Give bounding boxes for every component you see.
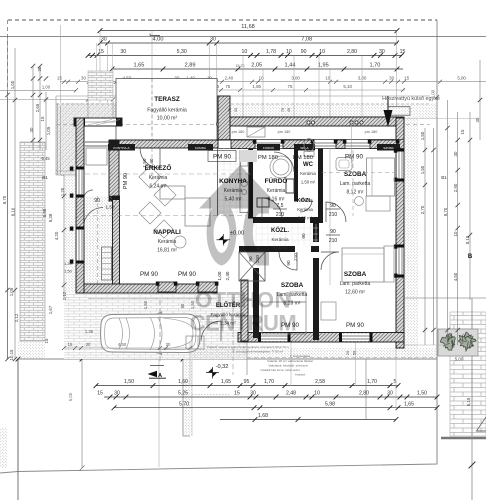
interior wall kozl/szoba right bbox=[313, 222, 319, 242]
svg-text:1,50: 1,50 bbox=[420, 165, 425, 174]
svg-text:1,50 m²: 1,50 m² bbox=[301, 180, 316, 185]
watermark roof bbox=[199, 165, 281, 209]
trees in planter right bbox=[438, 329, 478, 356]
svg-text:1,95: 1,95 bbox=[318, 63, 329, 69]
dim line 1,65 2,89 row bbox=[112, 68, 403, 70]
interior extension lines bbox=[329, 149, 331, 286]
door arc szoba top-right bbox=[326, 202, 346, 222]
svg-text:90: 90 bbox=[330, 229, 336, 235]
svg-text:75: 75 bbox=[228, 108, 232, 112]
svg-text:1,40: 1,40 bbox=[149, 158, 154, 167]
svg-text:10,00 m²: 10,00 m² bbox=[157, 116, 178, 122]
plot left edge extended bbox=[17, 359, 19, 500]
dim row 1,50 1,60 ... bbox=[96, 385, 398, 387]
svg-text:2,70: 2,70 bbox=[420, 205, 425, 214]
svg-text:10: 10 bbox=[259, 75, 264, 80]
svg-text:7,08: 7,08 bbox=[301, 37, 312, 43]
dim line 4,00 / 7,08 bbox=[100, 42, 398, 44]
svg-text:OTTHON: OTTHON bbox=[195, 288, 291, 313]
svg-text:1,68: 1,68 bbox=[258, 413, 268, 419]
svg-text:90: 90 bbox=[330, 203, 336, 209]
svg-text:4,00: 4,00 bbox=[153, 37, 164, 43]
faint vertical x159 bbox=[158, 359, 160, 467]
svg-text:PM 90: PM 90 bbox=[346, 322, 364, 329]
svg-text:1,00: 1,00 bbox=[10, 80, 15, 89]
terrace slab bbox=[116, 79, 217, 141]
svg-text:T. a módosított helyiséglista:: T. a módosított helyiséglista: 77,65 m² bbox=[233, 350, 283, 354]
svg-text:4,50: 4,50 bbox=[453, 272, 458, 281]
svg-text:4,50: 4,50 bbox=[118, 342, 127, 347]
svg-text:Családi ház terve: utcai nézet: Családi ház terve: utcai nézet bbox=[260, 368, 300, 372]
watermark letter C bbox=[243, 200, 269, 266]
svg-text:5,10: 5,10 bbox=[343, 84, 352, 89]
svg-text:90: 90 bbox=[301, 49, 307, 55]
plot bottom slanted boundary bbox=[0, 472, 18, 474]
dim line 4,50 row light bbox=[60, 81, 486, 83]
svg-text:10: 10 bbox=[242, 49, 248, 55]
svg-text:1,05: 1,05 bbox=[46, 126, 51, 135]
exterior wall right bbox=[396, 118, 404, 348]
svg-text:2,80: 2,80 bbox=[347, 49, 357, 55]
svg-text:Kerámia: Kerámia bbox=[267, 188, 286, 194]
window left wall 2 bbox=[77, 228, 84, 262]
entrance door arc bbox=[201, 321, 221, 341]
svg-text:SZOBA: SZOBA bbox=[383, 146, 394, 150]
extension lines top bbox=[99, 31, 101, 118]
svg-text:10,15: 10,15 bbox=[9, 349, 14, 361]
svg-text:75: 75 bbox=[225, 84, 230, 89]
svg-text:90: 90 bbox=[94, 198, 100, 204]
fence line right y298 bbox=[404, 297, 486, 299]
bottom dimension block bbox=[62, 329, 439, 422]
svg-text:6,24 m²: 6,24 m² bbox=[150, 184, 167, 190]
svg-text:5,00: 5,00 bbox=[457, 75, 466, 80]
svg-text:30: 30 bbox=[81, 75, 86, 80]
stipple column far left bottom bbox=[0, 428, 7, 468]
svg-text:1,50: 1,50 bbox=[124, 379, 134, 385]
svg-text:15: 15 bbox=[98, 49, 104, 55]
plot boundary dashed line top bbox=[8, 19, 437, 21]
paved hatch top-left corner bbox=[56, 103, 118, 118]
svg-text:2,05: 2,05 bbox=[251, 63, 262, 69]
washing machine bbox=[257, 198, 269, 207]
door arc szoba mid bbox=[279, 252, 297, 270]
svg-text:3,00: 3,00 bbox=[291, 75, 300, 80]
svg-text:1,65: 1,65 bbox=[404, 401, 414, 407]
svg-text:Antracit: Antracit bbox=[295, 373, 305, 377]
svg-text:210: 210 bbox=[293, 253, 298, 261]
dim line 75 1,85 row light bbox=[205, 89, 405, 91]
inner vertical line x183 bbox=[183, 359, 190, 436]
svg-text:50: 50 bbox=[352, 350, 357, 355]
svg-text:2,12: 2,12 bbox=[14, 313, 19, 322]
svg-text:75: 75 bbox=[288, 84, 293, 89]
svg-text:5,30: 5,30 bbox=[177, 49, 187, 55]
svg-text:5,15: 5,15 bbox=[466, 397, 471, 406]
plot rectangle bbox=[18, 359, 437, 472]
svg-text:11,68: 11,68 bbox=[241, 24, 255, 30]
svg-text:PM 90: PM 90 bbox=[140, 271, 158, 278]
right brick paved strip bbox=[450, 312, 486, 436]
svg-text:KAMRA: KAMRA bbox=[195, 146, 207, 150]
svg-text:95: 95 bbox=[244, 379, 250, 385]
svg-text:12,60 m²: 12,60 m² bbox=[345, 290, 365, 296]
driveway dashed axis bbox=[159, 300, 161, 362]
svg-text:1,70: 1,70 bbox=[264, 379, 274, 385]
svg-text:1,50: 1,50 bbox=[142, 158, 147, 167]
north/entry arrow bbox=[387, 96, 389, 112]
window nappali south 2 bbox=[198, 282, 217, 292]
svg-text:Lam. parketta: Lam. parketta bbox=[340, 281, 371, 287]
section arrow A bbox=[148, 366, 167, 379]
svg-text:1,00: 1,00 bbox=[42, 84, 51, 89]
svg-text:3,55 m²: 3,55 m² bbox=[272, 246, 288, 251]
svg-text:30: 30 bbox=[389, 75, 394, 80]
niche radiator bbox=[102, 247, 112, 280]
eaves dashed through terrace bbox=[56, 124, 430, 126]
interior wall wc/szoba bbox=[318, 149, 323, 223]
svg-text:Kerámia: Kerámia bbox=[149, 175, 168, 181]
svg-text:1,50: 1,50 bbox=[106, 205, 115, 210]
L-wall west niche bbox=[113, 196, 120, 287]
svg-text:PM 90: PM 90 bbox=[345, 154, 363, 161]
gravel under left bricks bbox=[18, 341, 45, 359]
svg-text:-0,32: -0,32 bbox=[216, 364, 229, 370]
interior wall south of furdo bbox=[253, 217, 305, 223]
left dimension block bbox=[2, 37, 67, 361]
window right wall 2 bbox=[397, 246, 404, 276]
car top view bbox=[101, 311, 201, 355]
window label boxes bbox=[108, 144, 135, 151]
svg-text:Vakolatok: kétoldali, színezet: Vakolatok: kétoldali, színezett bbox=[268, 363, 307, 367]
svg-text:Kerámia: Kerámia bbox=[271, 237, 289, 242]
door arc szoba right bbox=[321, 252, 339, 270]
west niche stipple bbox=[84, 196, 113, 284]
dim row 5,70 5,98 1,65 bbox=[114, 407, 437, 409]
svg-text:40: 40 bbox=[234, 108, 238, 112]
window gap szoba mid south bbox=[260, 334, 288, 342]
exterior wall left bbox=[76, 118, 84, 293]
svg-text:8,10: 8,10 bbox=[11, 207, 16, 216]
interior wall furdo/wc bbox=[294, 149, 298, 202]
top dimension block bbox=[0, 24, 486, 101]
svg-text:2,58: 2,58 bbox=[315, 379, 325, 385]
svg-text:PM 90: PM 90 bbox=[213, 154, 231, 161]
terrace posts bbox=[216, 122, 220, 126]
room label TERASZ bbox=[147, 96, 187, 122]
svg-text:8,70: 8,70 bbox=[2, 195, 7, 204]
exterior wall bottom-right bbox=[238, 333, 404, 343]
svg-text:1,60: 1,60 bbox=[178, 379, 188, 385]
site line full width y36.6 bbox=[0, 36, 486, 38]
plot boundary right vertical x437 bbox=[436, 20, 438, 464]
svg-text:15: 15 bbox=[40, 116, 45, 121]
svg-text:FÜRDŐ: FÜRDŐ bbox=[265, 176, 288, 185]
terrace axis dashed bbox=[151, 79, 153, 141]
svg-text:1,50: 1,50 bbox=[417, 391, 427, 397]
svg-text:3,00: 3,00 bbox=[358, 75, 367, 80]
svg-text:2,80: 2,80 bbox=[359, 391, 369, 397]
svg-text:Falazat: 30 cm vázkerámia fala: Falazat: 30 cm vázkerámia falazat bbox=[267, 359, 313, 363]
svg-text:90: 90 bbox=[286, 260, 291, 266]
szoba mid bed bbox=[262, 302, 306, 334]
svg-text:210: 210 bbox=[276, 212, 285, 218]
svg-text:2,89: 2,89 bbox=[185, 63, 196, 69]
svg-text:PM 90: PM 90 bbox=[178, 271, 196, 278]
slope triangle marker bbox=[477, 417, 486, 431]
svg-text:15: 15 bbox=[460, 129, 465, 134]
svg-text:5,98: 5,98 bbox=[325, 401, 335, 407]
svg-text:5,70: 5,70 bbox=[179, 401, 189, 407]
svg-text:0,90 m²: 0,90 m² bbox=[298, 216, 313, 221]
svg-text:30: 30 bbox=[101, 37, 107, 43]
svg-text:15: 15 bbox=[234, 391, 240, 397]
dim line 11,68 bbox=[100, 30, 397, 32]
niche dashed axis bbox=[97, 196, 99, 284]
konyha west boundary line bbox=[217, 149, 219, 216]
svg-text:30: 30 bbox=[29, 127, 34, 132]
dashed line nappali bbox=[85, 215, 246, 217]
window band right section bbox=[218, 139, 404, 141]
dim line 5,30 row bbox=[88, 54, 402, 56]
svg-text:2,40: 2,40 bbox=[225, 271, 230, 280]
svg-text:1,78: 1,78 bbox=[266, 49, 276, 55]
door arc wc bbox=[300, 200, 312, 212]
svg-text:5,00: 5,00 bbox=[68, 392, 73, 401]
svg-text:1,70: 1,70 bbox=[367, 379, 377, 385]
svg-text:WC: WC bbox=[303, 162, 314, 168]
interior wall konyha/furdo bbox=[248, 149, 253, 219]
exterior wall top-right bbox=[218, 117, 404, 126]
slab border lines bbox=[57, 104, 59, 175]
dashed entrance axis bbox=[232, 300, 234, 375]
svg-text:210: 210 bbox=[329, 238, 338, 244]
svg-text:20: 20 bbox=[345, 350, 350, 355]
svg-text:1,85: 1,85 bbox=[252, 84, 261, 89]
small dim lines top left bbox=[0, 89, 76, 91]
shower bbox=[270, 156, 292, 178]
svg-text:15: 15 bbox=[404, 75, 409, 80]
entrance steps bbox=[186, 336, 204, 349]
vertical line x472 bottom right bbox=[471, 298, 473, 500]
svg-text:90: 90 bbox=[301, 233, 306, 239]
interior wall szoba mid left bbox=[253, 246, 259, 252]
svg-text:30: 30 bbox=[453, 151, 458, 156]
svg-text:PM 180: PM 180 bbox=[258, 155, 278, 161]
furdo door arc bbox=[274, 152, 294, 172]
svg-text:Kerámia: Kerámia bbox=[158, 239, 177, 245]
svg-text:Fagyálló kerámia: Fagyálló kerámia bbox=[147, 108, 187, 114]
tile grid kitchen/hall bbox=[218, 148, 318, 246]
right dimension block bbox=[420, 60, 482, 406]
room labels bbox=[145, 162, 371, 326]
svg-text:1,70: 1,70 bbox=[369, 63, 380, 69]
svg-text:15: 15 bbox=[57, 75, 62, 80]
inner vertical line x82 bbox=[81, 359, 83, 468]
niche door arc 2 bbox=[84, 190, 94, 200]
PM window labels bbox=[123, 130, 377, 329]
svg-text:KONYHA-A: KONYHA-A bbox=[113, 146, 130, 150]
svg-text:15: 15 bbox=[97, 391, 103, 397]
svg-text:2,40: 2,40 bbox=[225, 75, 234, 80]
watermark letter O bbox=[207, 200, 237, 266]
west perimeter stipple bbox=[64, 126, 76, 293]
door size labels bbox=[94, 108, 356, 355]
kitchen counter bbox=[240, 151, 249, 213]
west wall door gaps bbox=[77, 207, 84, 227]
svg-text:8,70: 8,70 bbox=[443, 207, 448, 216]
svg-text:TERASZ: TERASZ bbox=[154, 96, 180, 103]
dashed line y357 bbox=[247, 357, 437, 359]
svg-text:KÖZL.: KÖZL. bbox=[297, 197, 314, 204]
closet erkezo bbox=[86, 148, 107, 165]
exterior wall behind terrace bbox=[109, 140, 218, 148]
svg-text:1,50: 1,50 bbox=[143, 300, 148, 309]
dashed line kitchen bbox=[85, 173, 250, 175]
svg-text:40: 40 bbox=[287, 108, 291, 112]
svg-text:Lam. parketta: Lam. parketta bbox=[340, 181, 371, 187]
svg-text:2,90: 2,90 bbox=[453, 183, 458, 192]
dim row 1,68 bbox=[220, 419, 396, 421]
svg-text:1,00: 1,00 bbox=[217, 271, 222, 280]
extension lines right of house bbox=[404, 118, 480, 120]
notes text block bbox=[190, 96, 440, 377]
svg-text:5,38: 5,38 bbox=[48, 213, 53, 222]
entrance path strip bbox=[184, 359, 192, 436]
terrace side pillar bbox=[218, 96, 230, 140]
svg-text:FÜRDŐ: FÜRDŐ bbox=[263, 145, 275, 150]
dashed lines szoba tr bbox=[322, 172, 396, 174]
svg-text:-0,45: -0,45 bbox=[40, 156, 50, 161]
eaves dashed line bbox=[56, 103, 430, 105]
exterior wall elotere bbox=[241, 280, 248, 341]
svg-text:Parkoló mérete a telken belül:: Parkoló mérete a telken belül: gépkocsi … bbox=[207, 345, 290, 349]
szoba right bed bbox=[342, 248, 384, 282]
interior wall erkezo west bbox=[109, 140, 119, 201]
svg-text:8,12 m²: 8,12 m² bbox=[347, 190, 364, 196]
door arc furdo bbox=[262, 198, 282, 218]
terrace door arc bbox=[140, 148, 160, 168]
dining diamonds bbox=[139, 166, 161, 188]
svg-text:PM 90: PM 90 bbox=[123, 173, 129, 189]
wardrobe X box bbox=[239, 252, 265, 281]
svg-text:75: 75 bbox=[281, 108, 285, 112]
svg-text:1,65: 1,65 bbox=[133, 63, 144, 69]
dim row 5,25 / 2,48 2,80 bbox=[104, 396, 437, 398]
svg-text:1,67: 1,67 bbox=[48, 305, 53, 314]
svg-text:CENTRUM: CENTRUM bbox=[190, 311, 297, 336]
svg-text:B1: B1 bbox=[441, 175, 447, 180]
wc toilet bbox=[304, 139, 314, 152]
tilted window symbol bbox=[247, 127, 265, 137]
svg-text:B1: B1 bbox=[42, 175, 48, 180]
window left wall 1 bbox=[77, 168, 84, 196]
watermark logo Otthon Centrum bbox=[190, 165, 297, 336]
svg-text:2,65: 2,65 bbox=[35, 103, 40, 112]
dashed axis erkezo bbox=[151, 148, 153, 180]
left brick paved strip bbox=[20, 142, 45, 341]
svg-text:pm 180: pm 180 bbox=[232, 130, 245, 134]
svg-text:5,00: 5,00 bbox=[455, 357, 464, 362]
radiator furdo bbox=[286, 179, 294, 193]
szoba tr bed bbox=[367, 158, 395, 196]
svg-text:10: 10 bbox=[453, 231, 458, 236]
wall post circles bbox=[307, 121, 310, 124]
wardrobe wall bbox=[239, 246, 253, 252]
svg-text:SZOBA: SZOBA bbox=[344, 271, 367, 278]
svg-text:NAPPALI: NAPPALI bbox=[153, 229, 181, 236]
svg-text:1,50: 1,50 bbox=[64, 269, 73, 274]
svg-text:PM 180: PM 180 bbox=[293, 155, 313, 161]
svg-text:B: B bbox=[468, 254, 473, 260]
svg-text:210: 210 bbox=[329, 212, 338, 218]
svg-text:1,50: 1,50 bbox=[420, 131, 425, 140]
svg-text:Hőszivattyú külső egysé: Hőszivattyú külső egysé bbox=[382, 96, 440, 102]
svg-text:5,98: 5,98 bbox=[42, 208, 47, 217]
svg-text:30: 30 bbox=[120, 49, 126, 55]
svg-text:KÖZL.: KÖZL. bbox=[271, 227, 289, 234]
svg-text:15: 15 bbox=[44, 338, 49, 343]
niche door arc 1 bbox=[84, 208, 104, 228]
heat pump outdoor unit bbox=[388, 107, 410, 116]
extension lines below house bbox=[189, 342, 191, 386]
svg-text:30: 30 bbox=[210, 37, 216, 43]
svg-text:Kerámia: Kerámia bbox=[300, 171, 316, 176]
svg-text:90: 90 bbox=[180, 303, 185, 308]
window nappali south 1 bbox=[158, 282, 176, 292]
svg-text:30: 30 bbox=[475, 117, 480, 122]
gravel stipple strip around house bbox=[56, 103, 437, 118]
plot boundary left vertical bbox=[7, 20, 9, 100]
svg-text:1,35: 1,35 bbox=[85, 329, 94, 334]
svg-text:Kerámia: Kerámia bbox=[297, 207, 313, 212]
svg-text:8,10: 8,10 bbox=[465, 235, 470, 244]
exterior wall top-left bbox=[74, 118, 122, 126]
brick path column NW bbox=[88, 71, 113, 100]
svg-text:5,25: 5,25 bbox=[178, 391, 188, 397]
svg-text:30: 30 bbox=[166, 342, 171, 347]
terrace window west part bbox=[85, 141, 109, 143]
extension line x60 bbox=[60, 25, 62, 103]
svg-text:pm 180: pm 180 bbox=[278, 130, 291, 134]
eaves outline line bbox=[56, 95, 430, 97]
path edge below nappali wall bbox=[88, 298, 217, 300]
svg-text:pm 180: pm 180 bbox=[365, 130, 378, 134]
svg-text:1,65: 1,65 bbox=[221, 379, 231, 385]
svg-text:SZOBA: SZOBA bbox=[344, 171, 367, 178]
window right wall 1 bbox=[397, 150, 404, 180]
nappali sofa bbox=[185, 198, 210, 226]
svg-text:30: 30 bbox=[86, 342, 91, 347]
window gap szoba right south bbox=[341, 334, 370, 342]
svg-text:4,20: 4,20 bbox=[54, 231, 59, 240]
svg-text:10: 10 bbox=[314, 391, 320, 397]
window end caps bbox=[156, 282, 160, 286]
exterior wall bottom nappali bbox=[76, 284, 217, 293]
interior wall kozl top szoba mid bbox=[259, 246, 295, 252]
svg-text:15: 15 bbox=[68, 342, 73, 347]
svg-text:2,48: 2,48 bbox=[286, 391, 296, 397]
svg-text:T. Helyiséglista: T. Helyiséglista bbox=[290, 354, 310, 358]
svg-text:16,81 m²: 16,81 m² bbox=[157, 248, 177, 254]
